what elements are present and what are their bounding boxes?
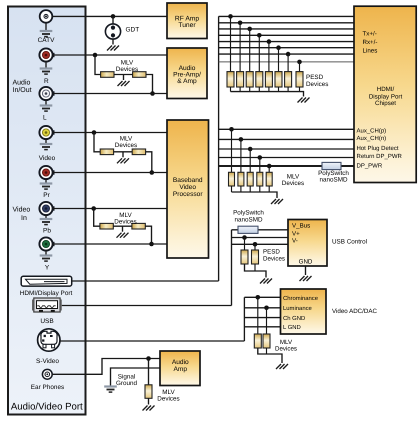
wire MLV down to Pr line [146, 152, 152, 173]
ground USB control [300, 276, 312, 281]
wire HDMI Tx/Rx line 3 [219, 28, 354, 30]
svg-text:V-: V- [292, 238, 298, 245]
svg-text:Devices: Devices [114, 219, 136, 226]
wire drop 1 [230, 16, 232, 71]
wire MLV to MLV with ground tap [114, 74, 133, 76]
wire MLV to ground [148, 398, 150, 404]
wire USB connector to riser [62, 305, 232, 307]
label MLV Devices ear phones [157, 389, 179, 403]
svg-text:CATV: CATV [38, 37, 56, 44]
wire HDMI Tx/Rx line 7 [219, 53, 354, 55]
MLV device ADC 2 [263, 334, 270, 348]
svg-text:Devices: Devices [116, 66, 138, 73]
ground under Y [40, 256, 53, 262]
wire GDT to ground [112, 39, 114, 44]
ground audio MLV pair [118, 81, 130, 86]
box RF Amp Tuner [167, 3, 207, 39]
connector Ear Phones jack [42, 369, 52, 379]
wire HDMI connector to riser [72, 280, 219, 282]
wire aux MLV bottoms [232, 186, 270, 192]
box HDMI/DisplayPort Chipset [354, 6, 416, 182]
MLV device video 4 [132, 223, 145, 229]
ground video MLV pair 1 [117, 158, 129, 163]
svg-text:Video: Video [39, 155, 56, 162]
PESD device USB 2 [252, 250, 259, 264]
label PESD Devices [306, 74, 328, 88]
PESD device 3 [246, 72, 253, 87]
wire HDMI Tx/Rx line 1 [219, 15, 354, 17]
svg-text:& Amp: & Amp [177, 78, 197, 85]
ground video MLV pair 2 [117, 233, 129, 238]
svg-text:Hot Plug Detect: Hot Plug Detect [357, 145, 399, 152]
wire Video to Baseband [53, 132, 167, 134]
ground under GDT [107, 46, 119, 51]
label PolySwitch nanoSMD 2 [233, 210, 264, 224]
box Video ADC/DAC [281, 289, 327, 334]
wire HDMI Tx/Rx line 5 [219, 41, 354, 43]
svg-text:Devices: Devices [115, 142, 137, 149]
svg-text:S-Video: S-Video [36, 358, 59, 365]
GDT gas discharge tube [105, 24, 120, 39]
label MLV Devices video 1 [115, 136, 137, 149]
MLV device audio L [133, 72, 146, 78]
wire ADC MLV 2 bottom [266, 348, 268, 354]
node aux 4 [258, 155, 263, 160]
node tap 3 [247, 27, 252, 32]
node Chrominance [255, 295, 260, 300]
wire HDMI Tx/Rx line 8 [219, 61, 354, 63]
wire ADC MLV rail [258, 348, 282, 363]
wire node to MLV [148, 359, 150, 385]
wire Aux_CH(p) line [219, 128, 354, 130]
svg-text:Ground: Ground [116, 380, 138, 387]
svg-text:Pb: Pb [43, 228, 51, 235]
svg-text:V_Bus: V_Bus [292, 223, 310, 230]
svg-text:Ear Phones: Ear Phones [31, 384, 64, 391]
wire aux drop 4 [259, 158, 261, 173]
connector USB [33, 298, 62, 312]
wire MLV down to Y line [145, 226, 151, 244]
svg-text:Devices: Devices [306, 81, 328, 88]
svg-text:Baseband: Baseband [173, 177, 203, 184]
wire HDMI Tx/Rx line 6 [219, 47, 354, 49]
MLV device ADC 1 [254, 334, 261, 348]
node on Y line [149, 242, 154, 247]
svg-text:Lines: Lines [363, 48, 378, 55]
box Audio Pre-Amp & Amp [167, 48, 207, 99]
svg-text:Y: Y [45, 265, 50, 272]
label Signal Ground [116, 374, 138, 387]
svg-text:Video: Video [179, 184, 196, 191]
wire tap to ground [122, 226, 124, 232]
ground under R [40, 69, 53, 75]
ground under Pr [40, 184, 53, 190]
svg-text:DP_PWR: DP_PWR [357, 163, 383, 170]
box Audio Amp [160, 351, 200, 386]
wire aux MLV rail [232, 192, 278, 198]
svg-text:Devices: Devices [157, 395, 179, 402]
MLV device audio R [101, 72, 114, 78]
ground aux MLV rail [271, 199, 283, 204]
node tap 1 [228, 14, 233, 19]
ground under CATV [40, 31, 53, 37]
svg-text:Tuner: Tuner [178, 22, 196, 29]
wire USB PESD 2 bottom [254, 264, 256, 271]
node Luminance [264, 306, 269, 311]
ground under ear phones MLV [143, 406, 155, 411]
connector RCA R [39, 48, 54, 67]
connector RCA Pb [39, 202, 54, 218]
wire Luminance line [244, 307, 280, 309]
wire Y to Baseband [53, 243, 167, 245]
connector S-Video [38, 329, 60, 351]
node on Pb line [91, 206, 96, 211]
node tap 2 [238, 21, 243, 26]
svg-text:In/Out: In/Out [13, 86, 32, 94]
node on Video line [92, 130, 97, 135]
wire USB riser [231, 230, 233, 306]
wire USB control GND [305, 266, 307, 275]
ground USB PESD [260, 279, 272, 284]
wire drop 6 [278, 48, 280, 72]
node aux 2 [239, 137, 244, 142]
node on CATV line [111, 14, 116, 19]
ground under Video [40, 144, 53, 150]
svg-text:Aux_CH(p): Aux_CH(p) [357, 128, 387, 135]
node tap 7 [286, 52, 291, 57]
wire drop Chrominance [257, 297, 259, 334]
wire tap to ground [123, 75, 125, 81]
MLV device ear phones [145, 385, 152, 399]
box USB Control [288, 220, 327, 267]
svg-text:Ch GND: Ch GND [283, 315, 305, 322]
svg-text:GND: GND [299, 259, 313, 266]
wire HDMI Tx/Rx line 4 [219, 34, 354, 36]
svg-text:Chipset: Chipset [375, 100, 396, 107]
wire Ch GND line [244, 317, 280, 319]
wire Ear Phones to Audio Amp [52, 359, 160, 375]
PESD device 8 [296, 72, 303, 87]
PESD device 5 [265, 72, 272, 87]
label Audio In/Out [13, 79, 32, 95]
signal ground earth symbol [104, 387, 117, 393]
svg-text:nanoSMD: nanoSMD [234, 216, 262, 223]
box Baseband Video Processor [167, 120, 209, 258]
MLV device aux 5 [266, 172, 272, 186]
wire aux drop 3 [249, 149, 251, 172]
svg-text:Tx+/-: Tx+/- [363, 30, 377, 37]
wire V- line [232, 243, 289, 245]
label MLV Devices video 2 [114, 212, 136, 225]
svg-text:Devices: Devices [282, 180, 304, 187]
svg-text:Video ADC/DAC: Video ADC/DAC [332, 308, 377, 315]
MLV device video 1 [100, 149, 113, 155]
node aux 1 [229, 127, 234, 132]
PESD device 1 [227, 72, 234, 87]
wire node to GDT [112, 16, 114, 24]
wire CATV to RF Amp Tuner [52, 15, 167, 17]
wire R to Audio Pre-Amp [53, 54, 167, 56]
svg-text:USB: USB [40, 318, 53, 325]
node tap 4 [257, 33, 262, 38]
wire V- drop [254, 244, 256, 250]
wire Hot Plug Detect line [219, 148, 354, 150]
svg-text:Rx+/-: Rx+/- [363, 39, 378, 46]
wire node down to MLV [94, 209, 100, 227]
svg-text:L GND: L GND [283, 324, 301, 331]
PESD device 7 [285, 72, 292, 87]
wire L to Audio Pre-Amp [53, 93, 167, 95]
wire node down to MLV [95, 55, 101, 75]
svg-text:Return DP_PWR: Return DP_PWR [357, 153, 403, 160]
label Video In [13, 206, 31, 223]
connector RCA Pr [39, 166, 54, 183]
node aux 5 [267, 164, 272, 169]
svg-text:HDMI/: HDMI/ [377, 86, 395, 93]
wire drop 7 [287, 54, 289, 72]
MLV device video 2 [132, 149, 145, 155]
label MLV Devices ADC [275, 339, 297, 353]
wire drop 3 [249, 29, 251, 72]
wire V+ line [232, 237, 289, 239]
node on R line [93, 53, 98, 58]
connector HDMI/DisplayPort [21, 276, 71, 286]
wire MLV to MLV with ground tap [113, 225, 132, 227]
node tap 6 [276, 45, 281, 50]
wire MLV to MLV with ground tap [114, 151, 133, 153]
node on L line [150, 91, 155, 96]
wire tap to ground [122, 152, 124, 158]
ground under L [40, 106, 53, 112]
wire V_Bus line [232, 229, 289, 231]
wire PESD bottoms to rail [231, 87, 300, 92]
node tap 8 [297, 60, 302, 65]
MLV device aux 2 [238, 172, 244, 186]
svg-text:Audio/Video Port: Audio/Video Port [11, 402, 83, 413]
MLV device aux 4 [257, 172, 263, 186]
ground under Pb [40, 219, 53, 225]
PESD device 6 [275, 72, 282, 87]
wire Aux_CH(n) line [219, 138, 354, 140]
connector RCA Y [39, 237, 54, 254]
wire drop 5 [268, 42, 270, 72]
MLV device aux 1 [229, 172, 235, 186]
MLV device aux 3 [247, 172, 253, 186]
PolySwitch nanoSMD on V_Bus [238, 226, 258, 233]
svg-text:Audio: Audio [13, 79, 31, 87]
svg-text:Amp: Amp [174, 366, 188, 373]
connector CATV [40, 10, 53, 30]
node on Pr line [150, 170, 155, 175]
svg-text:Aux_CH(n): Aux_CH(n) [357, 135, 387, 142]
svg-text:Luminance: Luminance [283, 305, 313, 312]
wire HDMI Tx/Rx line 2 [219, 22, 354, 24]
label MLV Devices audio [116, 60, 138, 73]
wire V+ drop [244, 238, 246, 251]
wire MLV down to L line [146, 75, 153, 94]
wire L GND line [244, 326, 280, 328]
wire aux drop 1 [231, 129, 233, 172]
wire drop 2 [239, 23, 241, 72]
node aux 3 [248, 147, 253, 152]
wire PESD common rail [231, 92, 304, 97]
wire Pb to Baseband [53, 208, 167, 210]
node tap 5 [267, 39, 272, 44]
wire Chrominance line [244, 296, 280, 298]
svg-text:Devices: Devices [263, 255, 285, 262]
svg-text:Devices: Devices [275, 345, 297, 352]
label MLV Devices aux [282, 174, 304, 188]
svg-text:USB Control: USB Control [332, 239, 367, 246]
MLV device video 3 [100, 223, 113, 229]
wire aux drop 5 [268, 166, 270, 172]
ground PESD rail [298, 98, 310, 103]
svg-text:Processor: Processor [173, 191, 203, 198]
connector RCA L [39, 87, 54, 105]
node V- [253, 242, 258, 247]
node on Audio Amp line [146, 356, 151, 361]
svg-text:In: In [21, 215, 27, 222]
svg-text:R: R [44, 78, 49, 85]
PESD device 4 [256, 72, 263, 87]
label PESD Devices USB [263, 249, 285, 263]
PolySwitch nanoSMD on DP_PWR [322, 162, 341, 169]
wire drop 8 [299, 62, 301, 72]
svg-text:Pr: Pr [43, 192, 50, 199]
PESD device USB 1 [241, 250, 248, 264]
svg-text:GDT: GDT [126, 27, 140, 34]
wire S-Video bus riser [243, 297, 245, 341]
PESD device 2 [237, 72, 244, 87]
wire drop 4 [258, 35, 260, 71]
wire HDMI riser [218, 16, 220, 281]
connector RCA Video yellow [39, 126, 54, 143]
svg-text:Chrominance: Chrominance [283, 295, 319, 302]
ground ADC MLV [276, 364, 288, 369]
wire aux drop 2 [240, 139, 242, 172]
wire S-Video to bus [60, 340, 245, 342]
svg-text:HDMI/Display Port: HDMI/Display Port [20, 290, 73, 297]
wire DP_PWR line [219, 165, 354, 167]
wire drop Luminance [266, 308, 268, 334]
wire signal ground line [111, 368, 161, 386]
label PolySwitch nanoSMD 1 [318, 170, 349, 184]
wire Return DP_PWR line [219, 157, 354, 159]
left connector panel Audio/Video Port [8, 7, 86, 415]
svg-text:nanoSMD: nanoSMD [319, 176, 347, 183]
wire USB PESD rail [245, 264, 267, 278]
node V+ [242, 235, 247, 240]
wire node down to MLV [94, 133, 100, 152]
wire Pr to Baseband [53, 172, 167, 174]
svg-text:Video: Video [13, 206, 31, 214]
svg-text:L: L [43, 115, 47, 122]
